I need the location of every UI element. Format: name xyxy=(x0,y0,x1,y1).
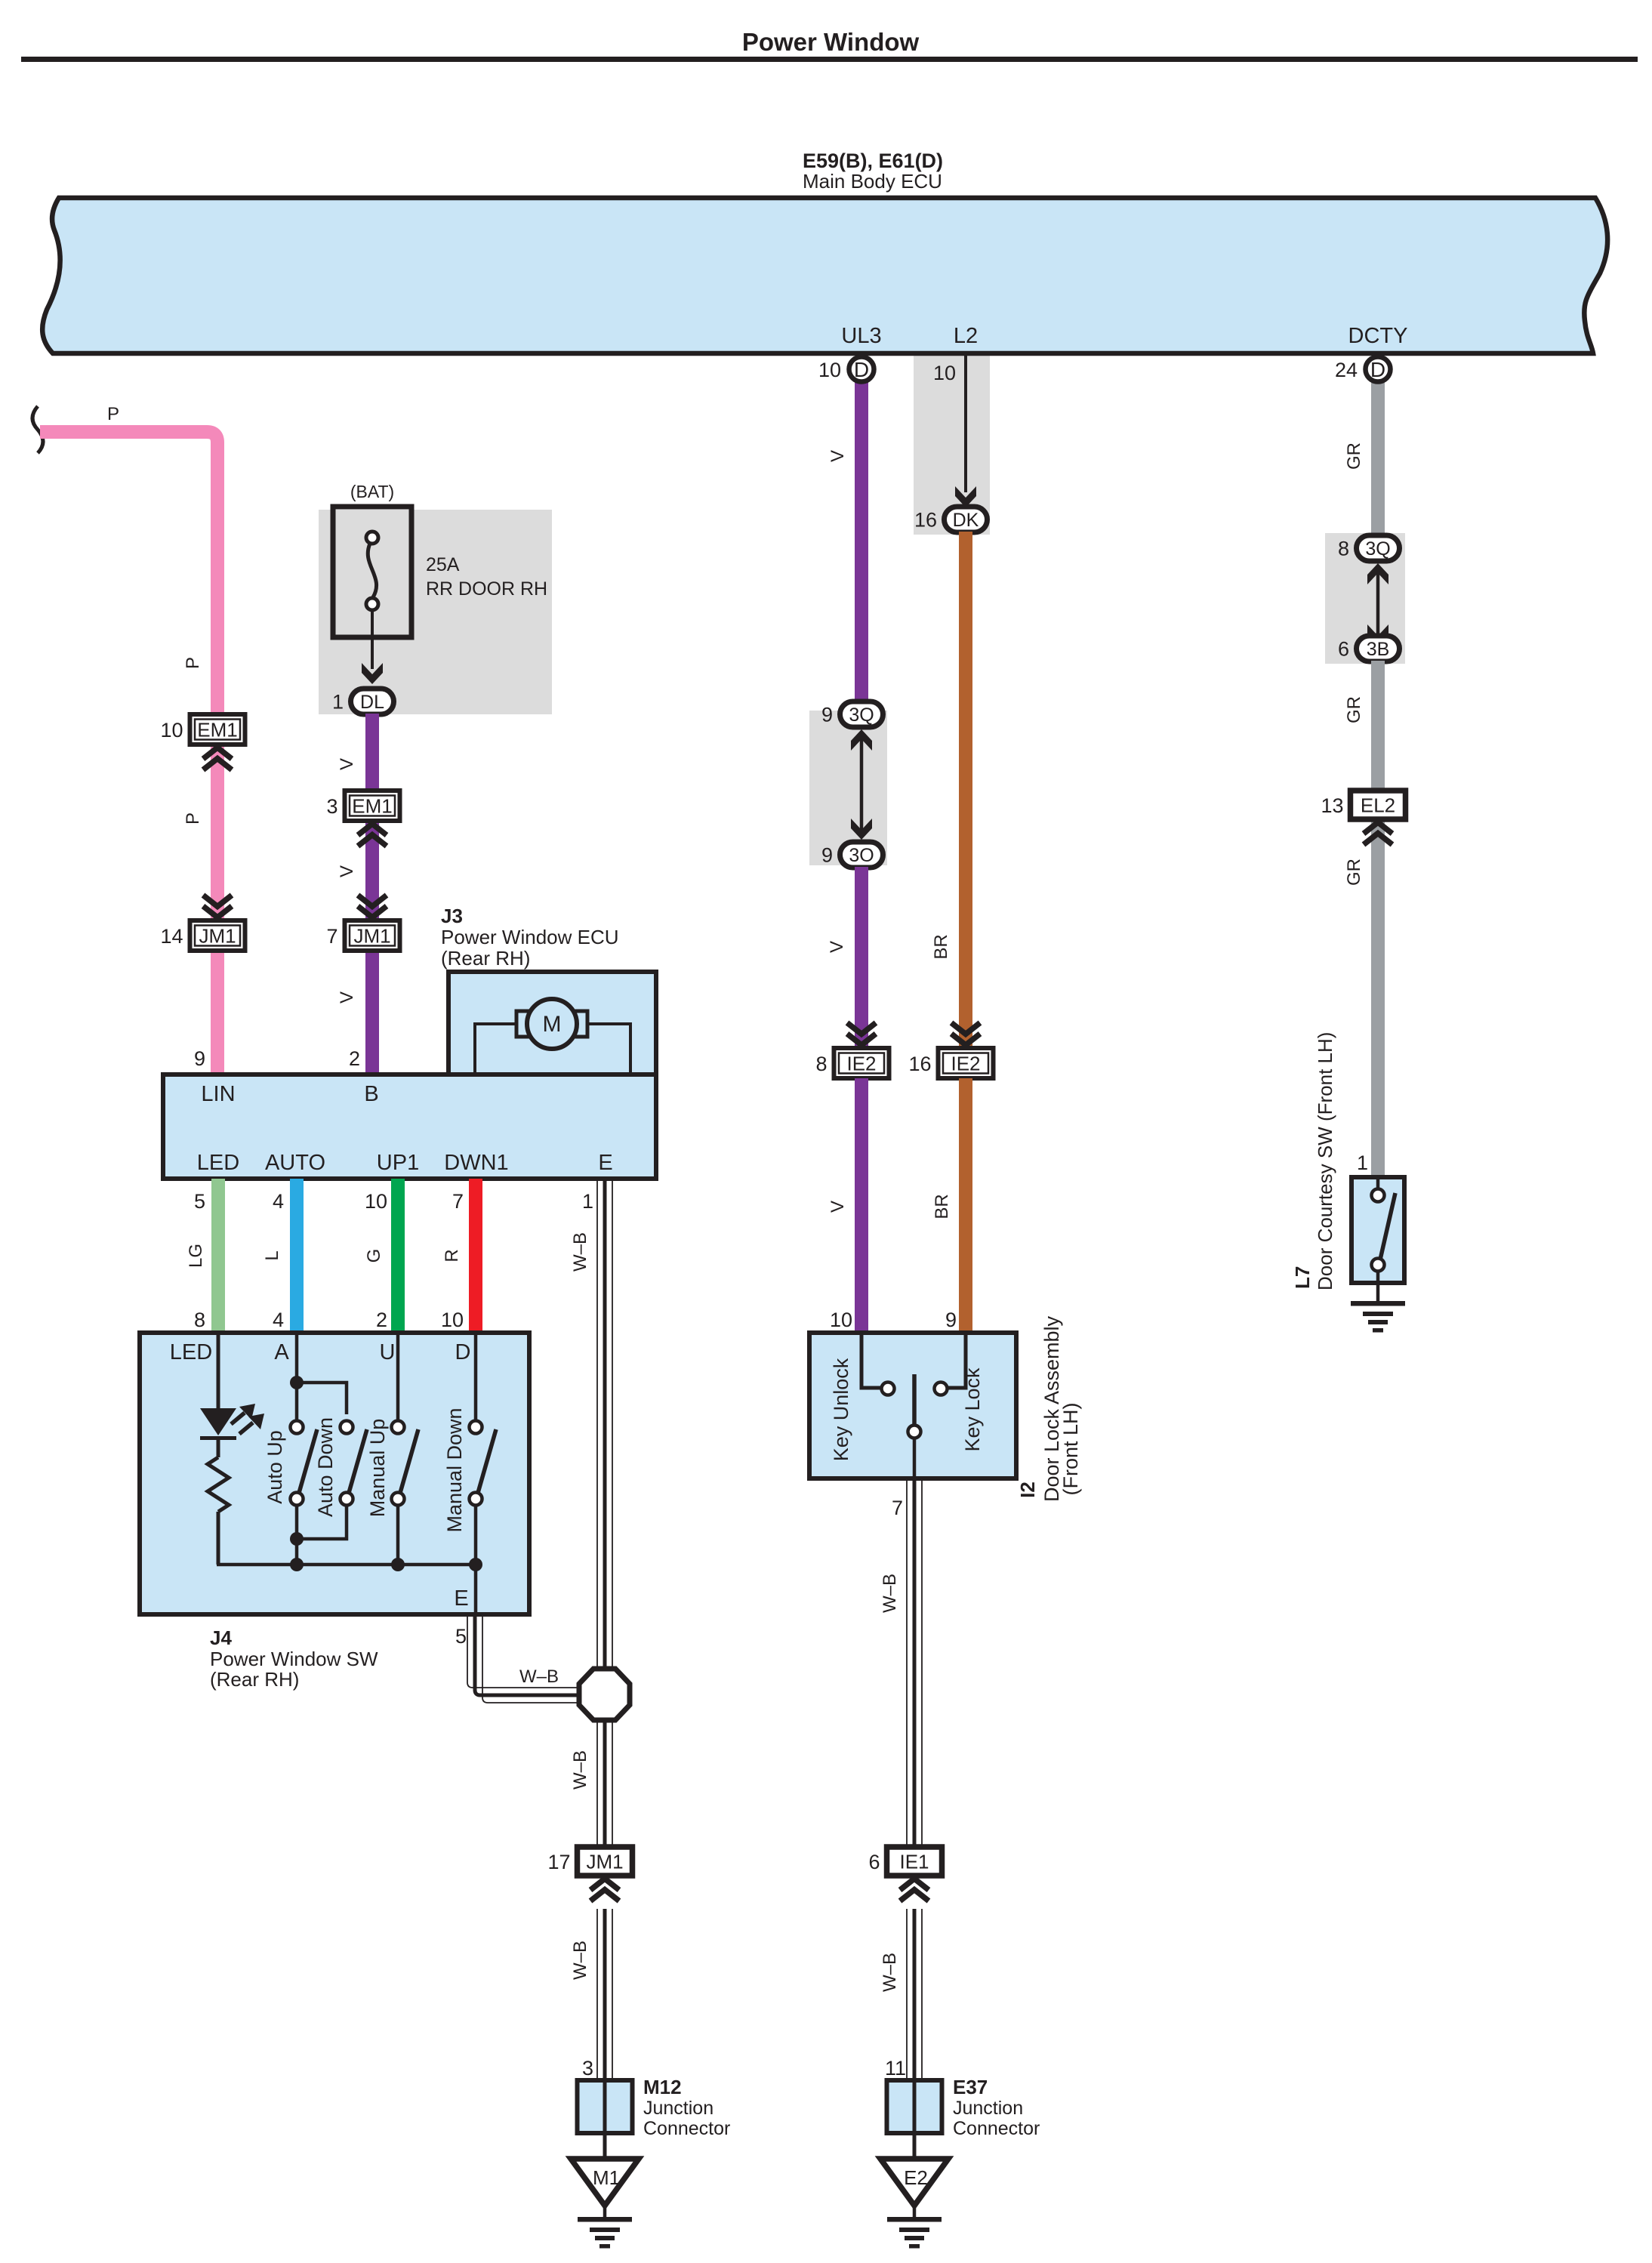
ground triangle M1 xyxy=(571,2159,639,2206)
wire GR lower xyxy=(1371,817,1385,1177)
svg-text:G: G xyxy=(364,1249,384,1263)
svg-text:(Rear RH): (Rear RH) xyxy=(210,1668,299,1691)
label V rotated UL3-2 xyxy=(827,941,847,953)
title rule xyxy=(21,57,1638,62)
pin 2 U-J4 xyxy=(376,1309,387,1331)
pin label B xyxy=(364,1082,378,1106)
pin label AUTO xyxy=(265,1151,325,1175)
label BR rotated 2 xyxy=(932,1194,952,1219)
label (BAT) xyxy=(350,482,394,501)
svg-text:LG: LG xyxy=(186,1244,206,1268)
ground triangle E2 xyxy=(880,2159,948,2206)
wire V to door lock xyxy=(855,1078,868,1333)
label V rotated 2 xyxy=(337,865,357,877)
svg-text:RR DOOR RH: RR DOOR RH xyxy=(426,578,547,600)
svg-text:GR: GR xyxy=(1344,859,1364,886)
wire R xyxy=(469,1179,482,1333)
svg-text:(BAT): (BAT) xyxy=(350,482,394,501)
ECU J3 body xyxy=(163,972,656,1179)
pin label A xyxy=(274,1340,289,1364)
connector IE2 pin 8 xyxy=(815,1048,889,1078)
svg-text:Door Courtesy SW (Front LH): Door Courtesy SW (Front LH) xyxy=(1314,1032,1336,1290)
svg-text:DCTY: DCTY xyxy=(1348,324,1408,348)
wire P break squiggle xyxy=(32,406,43,453)
svg-text:9: 9 xyxy=(821,844,833,867)
splice octagon xyxy=(579,1669,630,1720)
terminal D pin 24 DCTY xyxy=(1335,357,1391,382)
connector EM1 pin 3 xyxy=(326,791,399,821)
pin 7 DWN1 xyxy=(452,1190,464,1213)
svg-text:Manual Down: Manual Down xyxy=(443,1407,466,1532)
svg-text:13: 13 xyxy=(1321,794,1343,817)
fuse 25A RR DOOR RH xyxy=(333,507,411,637)
switch L7 Door Courtesy SW xyxy=(1351,1177,1404,1283)
wire through M12 xyxy=(603,2080,607,2159)
svg-text:A: A xyxy=(274,1340,289,1364)
svg-text:Auto Up: Auto Up xyxy=(264,1430,286,1504)
svg-text:3Q: 3Q xyxy=(849,704,874,726)
svg-text:JM1: JM1 xyxy=(353,925,390,948)
label Front LH rotated xyxy=(1059,1402,1082,1495)
ground symbol M1 xyxy=(578,2217,632,2249)
svg-text:Key Unlock: Key Unlock xyxy=(830,1358,852,1461)
svg-text:V: V xyxy=(828,1201,848,1213)
wire G xyxy=(391,1179,405,1333)
svg-text:M: M xyxy=(543,1012,562,1037)
svg-text:9: 9 xyxy=(194,1047,205,1070)
pin 11 E37 xyxy=(885,2057,906,2080)
shaded region fuse 25A RR DOOR RH xyxy=(319,510,552,714)
svg-text:10: 10 xyxy=(818,359,841,381)
label W-B rotated 2 xyxy=(570,1750,590,1790)
svg-text:5: 5 xyxy=(455,1625,467,1648)
chevrons above IE2-16 xyxy=(951,1023,980,1046)
connect arrows 3Q-3B xyxy=(1367,563,1388,646)
svg-text:GR: GR xyxy=(1344,442,1364,470)
svg-text:16: 16 xyxy=(914,509,937,532)
wire L2 lead xyxy=(955,355,976,507)
svg-text:3O: 3O xyxy=(849,845,874,866)
svg-text:Main Body ECU: Main Body ECU xyxy=(803,170,942,193)
wire LG xyxy=(211,1179,225,1333)
wire W-B from J3 E xyxy=(597,1179,612,1670)
svg-text:D: D xyxy=(854,358,869,381)
connector JM1 pin 14 xyxy=(160,920,245,951)
svg-text:10: 10 xyxy=(365,1190,387,1213)
connector IE1 pin 6 xyxy=(868,1847,942,1876)
switch Auto Up xyxy=(290,1333,347,1565)
label Auto Down rotated xyxy=(314,1417,337,1517)
chevrons below EM1-3 xyxy=(358,824,387,846)
shaded region 3Q-3O xyxy=(809,711,887,865)
pin label DWN1 xyxy=(444,1151,508,1175)
svg-text:7: 7 xyxy=(452,1190,464,1213)
switch Manual Up xyxy=(392,1333,419,1565)
svg-text:M1: M1 xyxy=(593,2166,620,2189)
svg-text:L: L xyxy=(262,1250,282,1260)
svg-text:8: 8 xyxy=(1338,538,1349,560)
svg-text:6: 6 xyxy=(868,1851,880,1873)
pin label LED-J4 xyxy=(170,1340,212,1364)
svg-text:U: U xyxy=(380,1340,396,1364)
svg-text:1: 1 xyxy=(582,1190,593,1213)
svg-text:E: E xyxy=(454,1586,468,1611)
svg-text:JM1: JM1 xyxy=(586,1851,623,1873)
pin 4 A-J4 xyxy=(273,1309,284,1331)
svg-text:P: P xyxy=(183,657,203,669)
key unlock contact xyxy=(861,1333,895,1395)
wire M1 to ground xyxy=(603,2206,607,2218)
label P horizontal xyxy=(107,404,119,424)
svg-text:W–B: W–B xyxy=(570,1232,590,1272)
svg-text:M12: M12 xyxy=(643,2076,682,2098)
motor M inside J3 xyxy=(475,999,630,1072)
svg-text:V: V xyxy=(337,758,357,770)
label Door Courtesy SW rotated xyxy=(1314,1032,1336,1290)
svg-text:UL3: UL3 xyxy=(841,324,881,348)
label R rotated xyxy=(442,1249,462,1262)
connector 3O pin 9 xyxy=(821,842,883,868)
pin 9 LIN xyxy=(194,1047,205,1070)
svg-text:10: 10 xyxy=(830,1309,852,1331)
switch Auto Down xyxy=(297,1421,367,1540)
svg-text:DWN1: DWN1 xyxy=(444,1151,508,1175)
svg-text:LIN: LIN xyxy=(201,1082,235,1106)
pin 8 LED-J4 xyxy=(194,1309,205,1331)
svg-text:7: 7 xyxy=(892,1497,903,1519)
svg-text:DL: DL xyxy=(360,692,384,713)
SW J4 body xyxy=(140,1333,529,1614)
svg-text:W–B: W–B xyxy=(570,1941,590,1980)
svg-text:W–B: W–B xyxy=(570,1750,590,1790)
label GR rotated 3 xyxy=(1344,859,1364,886)
pin 10 UP1 xyxy=(365,1190,387,1213)
svg-text:D: D xyxy=(455,1340,471,1364)
svg-text:E59(B), E61(D): E59(B), E61(D) xyxy=(803,150,943,172)
svg-text:25A: 25A xyxy=(426,554,460,575)
wire GR middle xyxy=(1371,661,1385,793)
svg-text:I2: I2 xyxy=(1016,1481,1039,1498)
label 25A RR DOOR RH xyxy=(426,554,547,600)
chevrons below IE1-6 xyxy=(900,1879,929,1901)
label Key Lock rotated xyxy=(961,1367,984,1452)
pin label D xyxy=(455,1340,471,1364)
label I2 rotated xyxy=(1016,1481,1039,1498)
svg-text:UP1: UP1 xyxy=(377,1151,419,1175)
pin label UP1 xyxy=(377,1151,419,1175)
pin 1 E xyxy=(582,1190,593,1213)
connector 3B pin 6 xyxy=(1338,636,1400,661)
svg-text:J4: J4 xyxy=(210,1626,232,1649)
svg-text:E2: E2 xyxy=(904,2166,928,2189)
svg-text:11: 11 xyxy=(885,2057,906,2080)
ground symbol E2 xyxy=(887,2217,942,2249)
wire V UL3 lower xyxy=(855,867,868,1050)
svg-text:IE2: IE2 xyxy=(951,1053,980,1075)
wire fuse to DL xyxy=(362,610,383,684)
wire W-B from J4 pin 5 xyxy=(467,1614,583,1703)
svg-text:W–B: W–B xyxy=(880,1574,900,1613)
svg-text:3: 3 xyxy=(326,795,337,818)
connector EL2 pin 13 xyxy=(1321,791,1405,819)
svg-text:BR: BR xyxy=(932,1194,952,1219)
wire L7 to ground xyxy=(1376,1283,1380,1303)
door lock assembly I2 body xyxy=(809,1333,1016,1478)
label V rotated 3 xyxy=(337,991,357,1004)
label W-B rotated 3 xyxy=(570,1941,590,1980)
svg-text:EM1: EM1 xyxy=(352,795,392,818)
wire E2 to ground xyxy=(913,2206,917,2218)
title Power Window xyxy=(742,28,920,56)
svg-text:17: 17 xyxy=(547,1851,570,1873)
wire V UL3 upper xyxy=(855,378,868,714)
resistor of LED xyxy=(208,1440,229,1565)
pin label E xyxy=(598,1151,612,1175)
svg-text:Connector: Connector xyxy=(643,2118,730,2139)
label GR rotated 1 xyxy=(1344,442,1364,470)
junction connector M12 xyxy=(578,2080,633,2133)
svg-text:1: 1 xyxy=(332,691,344,714)
svg-text:E37: E37 xyxy=(953,2076,988,2098)
label Manual Up rotated xyxy=(366,1419,389,1518)
pin label E-J4 xyxy=(454,1586,468,1611)
wire W-B to E37 xyxy=(907,1909,922,2080)
label L rotated xyxy=(262,1250,282,1260)
svg-text:BR: BR xyxy=(931,934,951,959)
svg-text:9: 9 xyxy=(821,704,833,726)
svg-text:5: 5 xyxy=(194,1190,205,1213)
svg-text:IE1: IE1 xyxy=(899,1851,929,1873)
label Door Lock Assembly rotated xyxy=(1040,1315,1063,1502)
wire P pink horizontal+vertical xyxy=(40,432,217,1074)
wire L xyxy=(290,1179,304,1333)
chevrons below JM1-17 xyxy=(590,1879,619,1901)
connector DL pin 1 xyxy=(332,689,394,714)
svg-text:AUTO: AUTO xyxy=(265,1151,325,1175)
chevrons above JM1-14 xyxy=(203,896,232,918)
svg-text:Power Window ECU: Power Window ECU xyxy=(441,926,619,948)
svg-text:Power Window: Power Window xyxy=(742,28,920,56)
label W-B rotated I2-2 xyxy=(880,1953,900,1992)
wire V fuse branch xyxy=(365,714,379,1074)
svg-text:W–B: W–B xyxy=(519,1666,559,1687)
label P rotated 2 xyxy=(183,812,203,825)
svg-text:LED: LED xyxy=(170,1340,212,1364)
connector 3Q pin 8 xyxy=(1338,535,1400,561)
svg-text:J3: J3 xyxy=(441,905,463,927)
bus rail E inside J4 xyxy=(217,1558,482,1571)
label J3 Power Window ECU (Rear RH) xyxy=(441,905,619,970)
svg-text:GR: GR xyxy=(1344,696,1364,723)
pin 10 door lock xyxy=(830,1309,852,1331)
Main Body ECU E59(B) E61(D) xyxy=(42,150,1607,353)
svg-text:8: 8 xyxy=(815,1053,827,1075)
svg-text:3: 3 xyxy=(582,2057,593,2080)
pin 2 B xyxy=(349,1047,360,1070)
connect arrows 3Q-3O xyxy=(851,729,872,840)
svg-text:P: P xyxy=(183,812,203,825)
wire W-B from I2 pin 7 xyxy=(907,1478,922,1854)
chevrons below EL2-13 xyxy=(1364,822,1392,845)
junction connector E37 xyxy=(887,2080,942,2133)
svg-text:V: V xyxy=(337,865,357,877)
svg-text:IE2: IE2 xyxy=(846,1053,876,1075)
svg-text:P: P xyxy=(107,404,119,424)
chevrons below EM1-10 xyxy=(203,748,232,770)
wire BR upper xyxy=(959,532,972,1050)
svg-text:Key Lock: Key Lock xyxy=(961,1367,984,1452)
svg-text:14: 14 xyxy=(160,925,183,948)
ground symbol L7 xyxy=(1351,1301,1405,1333)
shaded region L2-DK xyxy=(914,355,990,535)
pin label U xyxy=(380,1340,396,1364)
svg-text:6: 6 xyxy=(1338,638,1349,661)
wire W-B below splice xyxy=(597,1719,612,1848)
svg-text:R: R xyxy=(442,1249,462,1262)
shaded region 3Q-3B xyxy=(1325,533,1405,664)
terminal D pin 10 UL3 xyxy=(818,357,874,382)
svg-text:4: 4 xyxy=(273,1309,284,1331)
wire BR to door lock xyxy=(959,1078,972,1333)
svg-text:V: V xyxy=(337,991,357,1004)
label G rotated xyxy=(364,1249,384,1263)
svg-text:D: D xyxy=(1370,358,1385,381)
svg-text:1: 1 xyxy=(1357,1152,1368,1174)
label W-B horizontal xyxy=(519,1666,559,1687)
key lock contact xyxy=(935,1333,966,1395)
label V rotated UL3-3 xyxy=(828,1201,848,1213)
label Key Unlock rotated xyxy=(830,1358,852,1461)
pin 4 AUTO xyxy=(273,1190,284,1213)
label V rotated UL3-1 xyxy=(828,450,848,462)
svg-text:10: 10 xyxy=(441,1309,464,1331)
label P rotated 1 xyxy=(183,657,203,669)
label E37 Junction Connector xyxy=(953,2076,1040,2139)
svg-text:9: 9 xyxy=(945,1309,957,1331)
svg-text:Connector: Connector xyxy=(953,2118,1040,2139)
wire W-B to M12 xyxy=(597,1909,612,2080)
svg-text:V: V xyxy=(828,450,848,462)
svg-text:(Front LH): (Front LH) xyxy=(1059,1402,1082,1495)
svg-text:L7: L7 xyxy=(1291,1266,1314,1289)
pin 3 M12 xyxy=(582,2057,593,2080)
pin 7 I2 xyxy=(892,1497,903,1519)
pin 9 door lock xyxy=(945,1309,957,1331)
svg-text:24: 24 xyxy=(1335,359,1358,381)
label L7 rotated xyxy=(1291,1266,1314,1289)
label W-B rotated I2-1 xyxy=(880,1574,900,1613)
label M12 Junction Connector xyxy=(643,2076,730,2139)
svg-text:8: 8 xyxy=(194,1309,205,1331)
pin 10 L2 xyxy=(933,362,956,384)
switch Manual Down xyxy=(470,1333,497,1614)
label J4 Power Window SW (Rear RH) xyxy=(210,1626,378,1691)
svg-text:2: 2 xyxy=(349,1047,360,1070)
svg-text:DK: DK xyxy=(953,510,979,531)
pin 5 LED xyxy=(194,1190,205,1213)
svg-text:10: 10 xyxy=(933,362,956,384)
svg-text:3Q: 3Q xyxy=(1365,538,1390,560)
svg-text:4: 4 xyxy=(273,1190,284,1213)
svg-text:E: E xyxy=(598,1151,612,1175)
svg-text:Manual Up: Manual Up xyxy=(366,1419,389,1518)
svg-text:JM1: JM1 xyxy=(199,925,236,948)
svg-text:Junction: Junction xyxy=(953,2098,1023,2119)
svg-text:W–B: W–B xyxy=(880,1953,900,1992)
connector JM1 pin 7 xyxy=(326,920,399,951)
wire GR upper xyxy=(1371,378,1385,560)
LED symbol xyxy=(200,1333,264,1440)
label V rotated 1 xyxy=(337,758,357,770)
connector JM1 pin 17 xyxy=(547,1847,632,1876)
pin 1 L7 xyxy=(1357,1152,1368,1174)
label LG rotated xyxy=(186,1244,206,1268)
svg-text:Power Window SW: Power Window SW xyxy=(210,1648,378,1670)
key switch common xyxy=(908,1374,921,1478)
label Auto Up rotated xyxy=(264,1430,286,1504)
svg-text:Auto Down: Auto Down xyxy=(314,1417,337,1517)
chevrons above JM1-7 xyxy=(358,896,387,918)
pin label LIN xyxy=(201,1082,235,1106)
svg-text:EM1: EM1 xyxy=(197,719,237,741)
connector 3Q pin 9 xyxy=(821,701,883,727)
pin 5 E-J4 xyxy=(455,1625,467,1648)
label W-B rotated 1 xyxy=(570,1232,590,1272)
svg-text:7: 7 xyxy=(326,925,337,948)
wire through E37 xyxy=(913,2080,917,2159)
svg-text:16: 16 xyxy=(908,1053,931,1075)
label BR rotated 1 xyxy=(931,934,951,959)
svg-text:Junction: Junction xyxy=(643,2098,714,2119)
pin label LED xyxy=(197,1151,239,1175)
chevrons above IE2-8 xyxy=(847,1023,876,1046)
svg-text:EL2: EL2 xyxy=(1361,794,1395,817)
svg-text:L2: L2 xyxy=(954,324,978,348)
svg-text:LED: LED xyxy=(197,1151,239,1175)
label GR rotated 2 xyxy=(1344,696,1364,723)
connector IE2 pin 16 xyxy=(908,1048,993,1078)
svg-text:3B: 3B xyxy=(1367,639,1390,660)
connector EM1 pin 10 xyxy=(160,714,245,745)
svg-text:(Rear RH): (Rear RH) xyxy=(441,947,530,970)
svg-text:B: B xyxy=(364,1082,378,1106)
label Manual Down rotated xyxy=(443,1407,466,1532)
pin 10 D-J4 xyxy=(441,1309,464,1331)
svg-text:V: V xyxy=(827,941,847,953)
svg-text:2: 2 xyxy=(376,1309,387,1331)
svg-text:10: 10 xyxy=(160,719,183,741)
connector DK pin 16 xyxy=(914,507,988,532)
